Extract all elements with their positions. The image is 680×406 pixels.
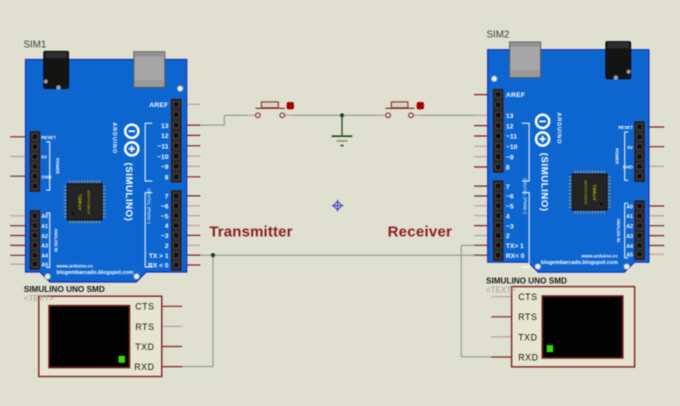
svg-text:4: 4	[165, 223, 169, 230]
wire SIM1 TX to SIM2 RX	[200, 254, 474, 256]
svg-text:8: 8	[165, 175, 169, 182]
wire corner vertical	[223, 115, 225, 125]
SIM2 power header	[635, 122, 644, 181]
svg-text:www.arduino.cc: www.arduino.cc	[580, 254, 618, 260]
svg-text:~5: ~5	[161, 213, 169, 220]
svg-text:~10: ~10	[506, 144, 518, 151]
svg-text:POWER: POWER	[55, 158, 60, 174]
svg-text:A5: A5	[626, 253, 633, 259]
wire to VT2 RXD	[461, 356, 491, 358]
junction dot at TX net	[211, 253, 215, 257]
SIM2 digital header (7-0)	[494, 181, 503, 260]
push button 2 red actuator marker	[416, 102, 424, 110]
svg-text:~9: ~9	[161, 164, 169, 171]
svg-text:A2: A2	[41, 234, 48, 240]
svg-text:RXD: RXD	[518, 352, 538, 362]
svg-text:RTS: RTS	[518, 312, 537, 322]
push button 2	[378, 102, 424, 118]
svg-text:GND: GND	[41, 174, 52, 179]
svg-text:ATMEL: ATMEL	[592, 184, 597, 201]
svg-text:7: 7	[506, 184, 510, 191]
svg-text:blogembarcado.blogspot.com: blogembarcado.blogspot.com	[57, 270, 134, 276]
wire button1 right to ground junction	[292, 114, 342, 116]
svg-text:RX< 0: RX< 0	[506, 253, 525, 260]
svg-text:5V: 5V	[627, 145, 634, 150]
svg-text:DIGITAL (PWM~): DIGITAL (PWM~)	[523, 178, 528, 214]
SIM2 USB connector	[510, 42, 541, 78]
SIM1 USB connector	[134, 52, 165, 88]
svg-text:ANALOG IN: ANALOG IN	[616, 219, 621, 243]
svg-text:~10: ~10	[157, 154, 169, 161]
SIM1 power/analog brackets	[46, 142, 50, 268]
svg-text:DIGITAL (PWM~): DIGITAL (PWM~)	[147, 188, 152, 224]
svg-text:Receiver: Receiver	[388, 224, 453, 241]
svg-text:RESET: RESET	[41, 135, 56, 140]
SIM2 Arduino logo	[536, 113, 562, 146]
wire SIM2 TX to corner	[461, 244, 474, 246]
SIM1 power header	[30, 132, 39, 192]
SIM2 power pin labels (RESET,5V,GND)	[618, 125, 634, 169]
svg-text:A1: A1	[626, 214, 633, 220]
virtual terminal VT2 screen	[542, 296, 622, 358]
virtual terminal VT2 pin labels	[518, 292, 538, 362]
svg-text:A3: A3	[626, 234, 633, 240]
SIM2 digital-side pin stubs	[474, 95, 494, 256]
SIM1 DC power jack	[44, 51, 69, 90]
svg-text:2: 2	[506, 233, 510, 240]
sheet origin marker	[332, 200, 344, 212]
Arduino UNO board SIM2 (receiver)	[474, 42, 664, 273]
svg-text:TX > 1: TX > 1	[149, 253, 169, 260]
svg-text:TXD: TXD	[518, 332, 537, 342]
svg-text:~6: ~6	[506, 194, 514, 201]
svg-text:<TEXT>: <TEXT>	[24, 294, 54, 303]
svg-text:ARDUINO: ARDUINO	[111, 122, 117, 154]
SIM1 power pin labels (RESET,5V,GND)	[41, 135, 56, 179]
svg-text:SIMULINO UNO SMD: SIMULINO UNO SMD	[486, 277, 567, 286]
SIM2 digital header (AREF,13-8)	[494, 90, 503, 173]
svg-text:TXD: TXD	[135, 342, 154, 352]
svg-text:ATMEGA328P: ATMEGA328P	[87, 189, 91, 214]
svg-text:~3: ~3	[506, 223, 514, 230]
SIM1 Arduino logo	[111, 122, 139, 155]
svg-text:SIM2: SIM2	[487, 30, 510, 41]
svg-text:~3: ~3	[161, 233, 169, 240]
svg-text:7: 7	[165, 194, 169, 201]
SIM2 DC power jack	[606, 42, 631, 81]
svg-text:AREF: AREF	[506, 92, 525, 99]
svg-text:2: 2	[165, 243, 169, 250]
wire corner to button1 left	[224, 114, 247, 116]
svg-text:A0: A0	[41, 214, 48, 220]
SIM1 ATMEGA328P chip	[64, 180, 106, 223]
svg-text:4: 4	[506, 213, 510, 220]
svg-text:www.arduino.cc: www.arduino.cc	[56, 263, 94, 269]
svg-text:SIMULINO UNO SMD: SIMULINO UNO SMD	[24, 285, 105, 294]
wire ground junction to button2 left	[342, 114, 378, 116]
svg-text:TX> 1: TX> 1	[506, 243, 524, 250]
SIM1 digital pins bracket	[145, 123, 152, 267]
SIM2 ATMEGA328P chip	[569, 171, 611, 214]
svg-text:A4: A4	[626, 244, 633, 250]
SIM1 PCB body	[26, 60, 187, 283]
wire SIM1 pin13 to corner	[200, 124, 225, 126]
svg-text:<TEXT>: <TEXT>	[486, 285, 516, 294]
svg-text:ARDUINO: ARDUINO	[556, 113, 562, 145]
svg-text:CTS: CTS	[135, 302, 154, 312]
svg-text:RTS: RTS	[135, 322, 154, 332]
svg-text:ATMEGA328P: ATMEGA328P	[584, 179, 588, 204]
svg-text:A2: A2	[626, 224, 633, 230]
svg-text:RESET: RESET	[618, 125, 633, 130]
svg-text:~9: ~9	[506, 154, 514, 161]
svg-text:ATMEL: ATMEL	[78, 194, 83, 211]
svg-text:CTS: CTS	[518, 292, 537, 302]
svg-text:12: 12	[506, 123, 514, 130]
ground symbol	[332, 115, 353, 145]
svg-text:Transmitter: Transmitter	[209, 224, 292, 241]
svg-text:(SIMULINO): (SIMULINO)	[123, 163, 134, 222]
SIM2 digital pin number labels	[506, 113, 525, 260]
virtual terminal VT2 cursor	[547, 345, 554, 352]
SIM2 POWER / ANALOG IN bracket labels	[614, 148, 621, 242]
SIM2 power/analog brackets	[625, 132, 629, 258]
wire vertical down right side	[460, 245, 462, 356]
svg-text:RXD: RXD	[134, 362, 154, 372]
SIM2 analog header	[635, 201, 644, 260]
svg-text:5V: 5V	[41, 155, 48, 160]
svg-text:~5: ~5	[506, 204, 514, 211]
SIM2 mounting holes	[491, 76, 629, 270]
svg-text:12: 12	[161, 133, 169, 140]
push button 1	[248, 102, 295, 118]
virtual terminal VT1 screen	[49, 306, 129, 368]
SIM2 PCB body	[488, 50, 649, 273]
wire junction down to terminal VT1	[212, 255, 214, 366]
virtual terminal VT1 body	[39, 296, 162, 376]
wire button2 right to SIM2 pin13	[421, 114, 474, 116]
SIM1 digital-side pin stubs	[181, 104, 201, 265]
svg-text:POWER: POWER	[614, 148, 619, 164]
SIM2 analog pin labels A0-A5	[626, 204, 633, 258]
svg-text:SIM1: SIM1	[24, 40, 47, 51]
svg-text:13: 13	[161, 123, 169, 130]
SIM1 analog header	[30, 211, 39, 270]
svg-text:RX < 0: RX < 0	[148, 263, 169, 270]
svg-text:(SIMULINO): (SIMULINO)	[539, 153, 550, 212]
svg-text:A5: A5	[41, 262, 48, 268]
SIM1 POWER / ANALOG IN bracket labels	[53, 158, 60, 252]
virtual terminal VT2 body	[512, 287, 635, 367]
svg-text:AREF: AREF	[149, 102, 168, 109]
push button 1 red actuator marker	[286, 102, 294, 110]
SIM1 mounting holes	[45, 86, 183, 280]
svg-text:blogembarcado.blogspot.com: blogembarcado.blogspot.com	[541, 260, 618, 266]
svg-text:~6: ~6	[161, 204, 169, 211]
svg-text:GND: GND	[623, 165, 634, 170]
svg-text:~11: ~11	[506, 134, 517, 141]
svg-text:~11: ~11	[157, 144, 168, 151]
virtual terminal VT1 pin labels	[134, 302, 154, 372]
svg-text:A0: A0	[626, 204, 633, 210]
svg-text:A1: A1	[41, 224, 48, 230]
svg-text:ANALOG IN: ANALOG IN	[53, 228, 58, 252]
svg-text:8: 8	[506, 165, 510, 172]
svg-text:13: 13	[506, 113, 514, 120]
svg-text:A3: A3	[41, 244, 48, 250]
SIM1 digital pin number labels	[148, 123, 169, 270]
SIM1 digital header (7-0)	[172, 191, 181, 270]
SIM1 digital header (AREF,13-8)	[172, 99, 181, 182]
Arduino UNO board SIM1 (transmitter)	[10, 51, 200, 282]
virtual terminal VT1 cursor	[119, 356, 126, 363]
SIM2 digital pins bracket	[522, 123, 529, 267]
wire to VT1 RXD	[182, 366, 214, 368]
virtual terminal VT1 pin stubs	[162, 306, 182, 366]
SIM2 power-side pin stubs	[644, 127, 664, 254]
SIM1 analog pin labels A0-A5	[41, 214, 48, 268]
junction dot at ground node	[340, 113, 344, 117]
svg-text:A4: A4	[41, 254, 48, 260]
virtual terminal VT2 pin stubs	[491, 297, 511, 357]
SIM1 power-side pin stubs	[10, 137, 30, 264]
